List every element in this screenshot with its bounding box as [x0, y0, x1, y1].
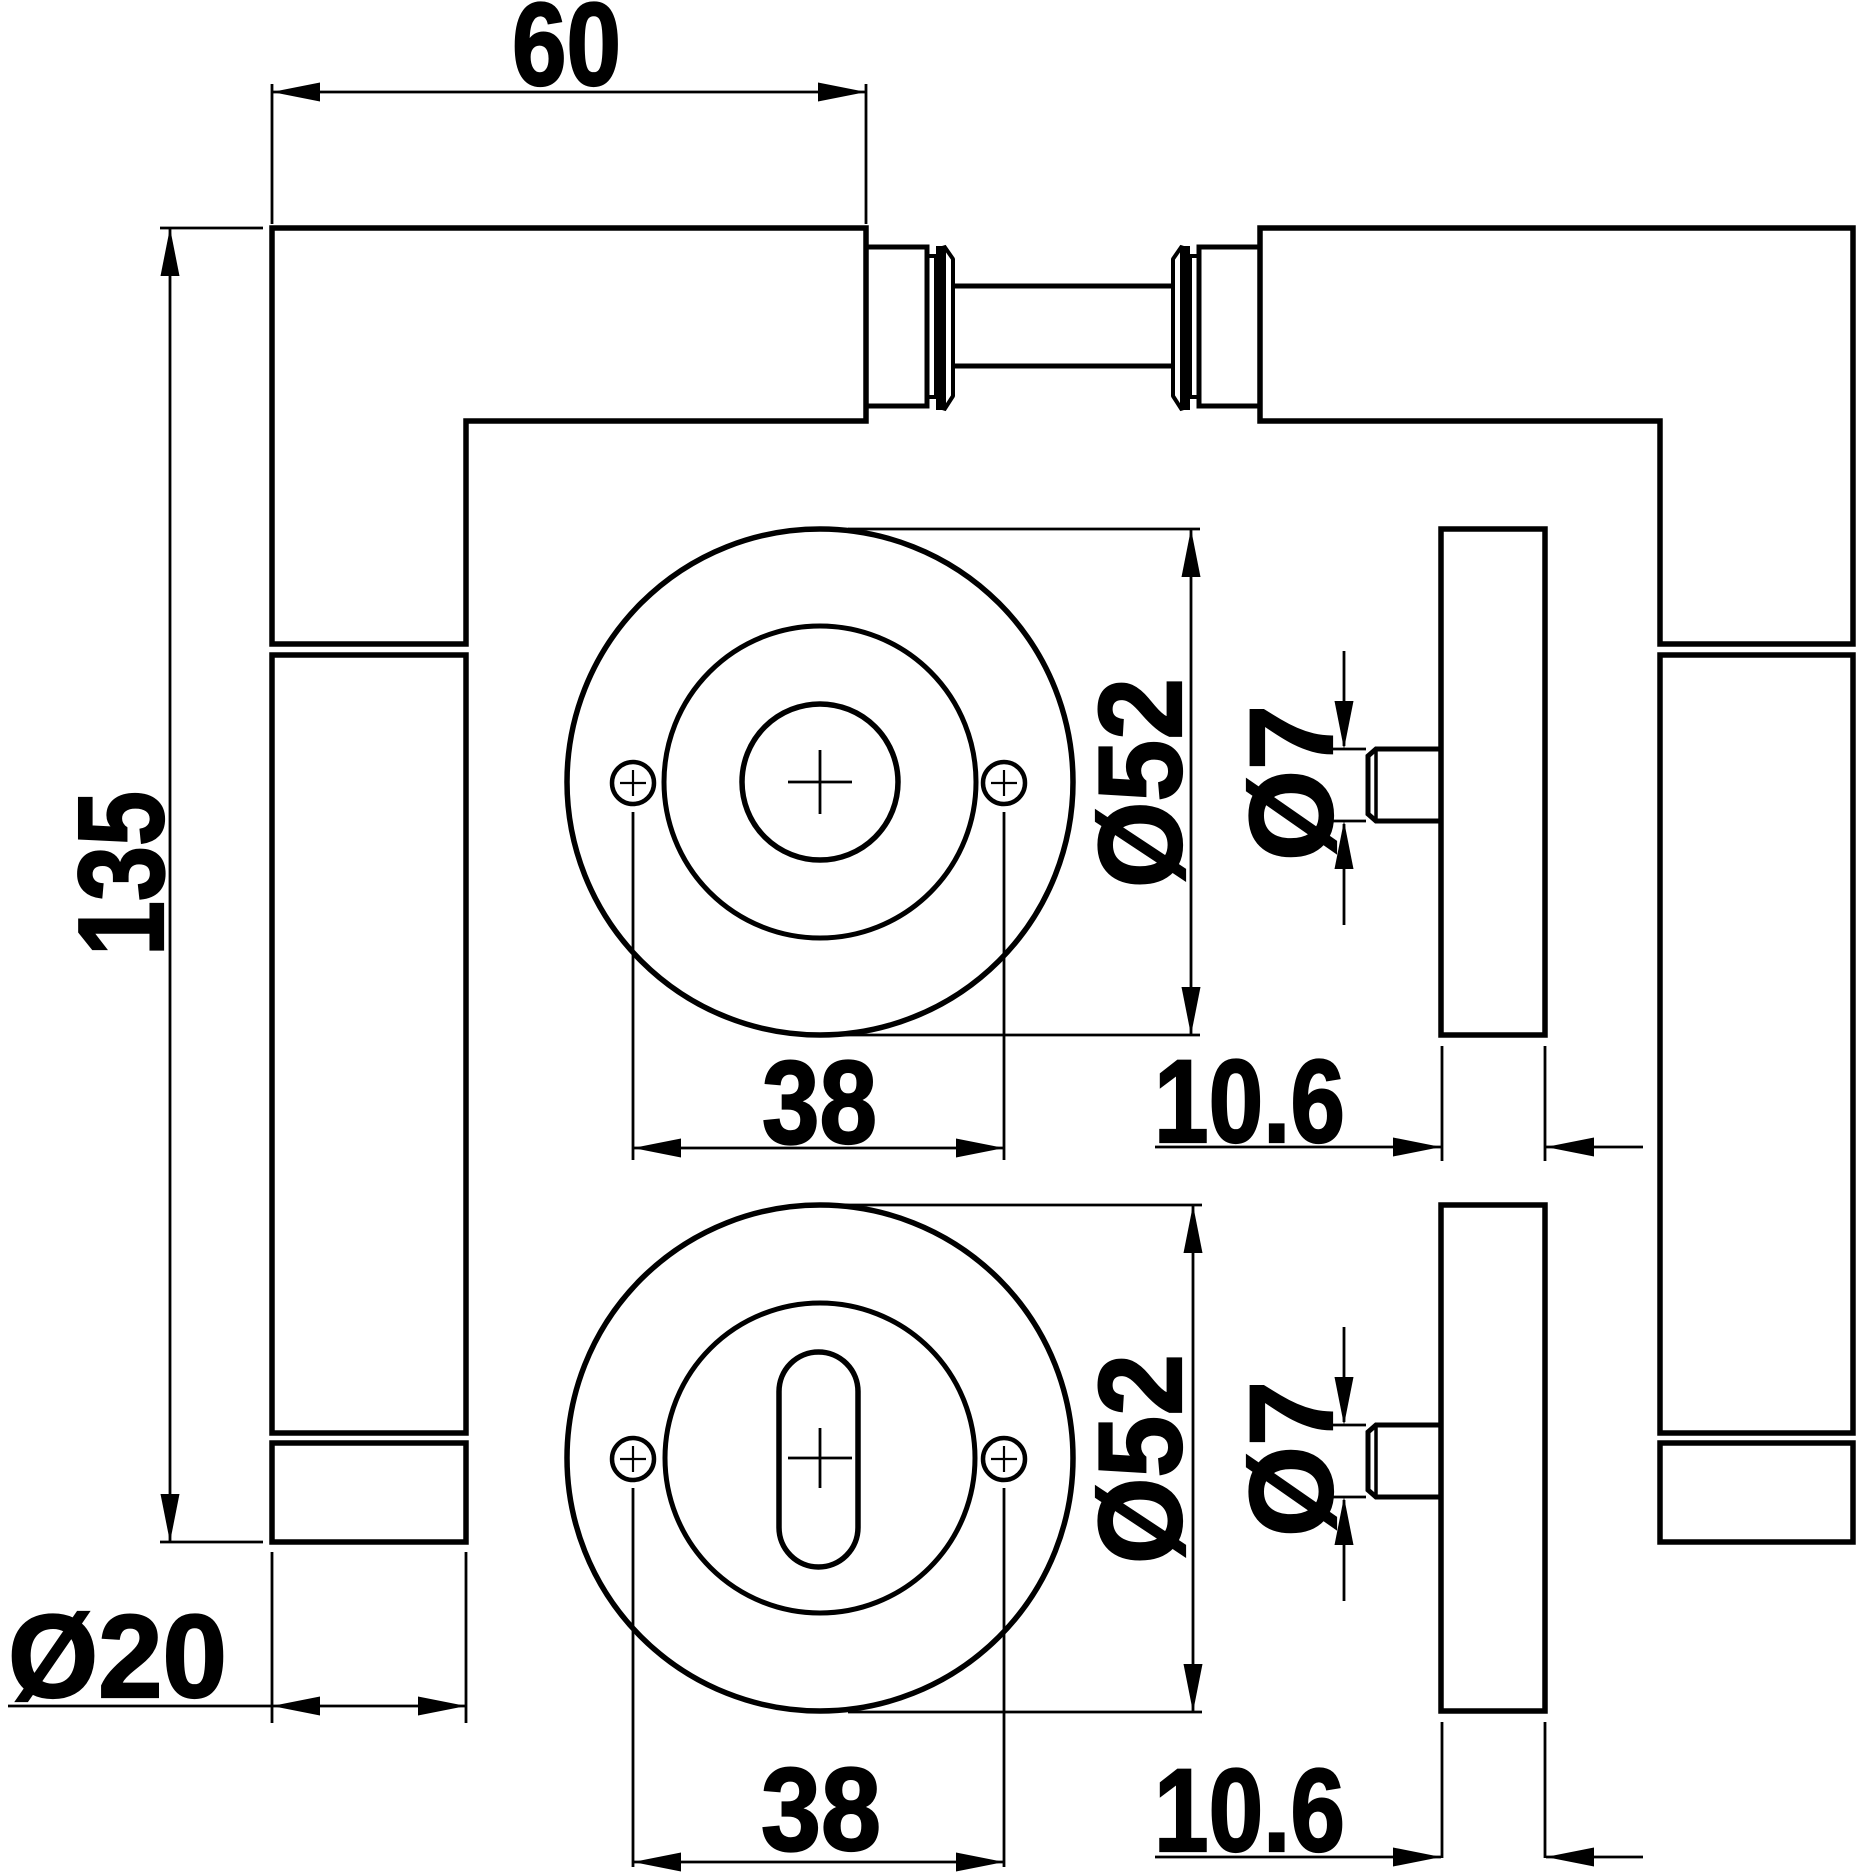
dimension 10.6 top line [1155, 1146, 1441, 1149]
right handle step ring [1190, 256, 1199, 397]
top rosette inner bore circle [742, 704, 898, 860]
svg-text:Ø52: Ø52 [1075, 1354, 1207, 1564]
right handle end cap [1660, 1443, 1853, 1542]
bottom rosette left screw [612, 1438, 654, 1480]
bottom rosette right screw [983, 1438, 1025, 1480]
dimension D7 bottom arrows [1343, 1327, 1346, 1422]
bottom rosette side view plate [1441, 1205, 1545, 1711]
dimension 60 extension lines [271, 84, 274, 224]
top rosette left screw [612, 762, 654, 804]
dimension D52 bottom extension lines [800, 1204, 1202, 1207]
bottom rosette keyhole slot [779, 1352, 858, 1567]
right handle retaining clip [1182, 246, 1190, 410]
dimension D7 bottom ticks [1330, 1424, 1366, 1427]
dimension D20 extension lines [271, 1552, 274, 1723]
bottom rosette outer circle [567, 1205, 1073, 1711]
top rosette right screw [983, 762, 1025, 804]
svg-text:Ø52: Ø52 [1075, 678, 1207, 888]
bottom rosette middle circle [665, 1303, 975, 1613]
top rosette center cross [788, 781, 852, 784]
dimension 38 bottom extension lines [632, 1488, 635, 1867]
dimension 60 line [272, 91, 866, 94]
dimension D20 line [8, 1705, 466, 1708]
svg-text:10.6: 10.6 [1154, 1036, 1345, 1168]
right handle grip tube [1660, 655, 1853, 1433]
dimension 38 bottom line [633, 1861, 1004, 1864]
svg-text:38: 38 [761, 1744, 881, 1872]
dimension D7 top arrows [1343, 651, 1346, 746]
dimension 38 top extension lines [632, 812, 635, 1160]
svg-text:10.6: 10.6 [1154, 1745, 1345, 1872]
bottom rosette side view stud [1368, 1425, 1441, 1497]
svg-text:Ø7: Ø7 [1226, 705, 1358, 861]
left handle step ring [927, 256, 936, 397]
left handle retaining clip [936, 246, 944, 410]
dimension 10.6 top extension lines [1441, 1046, 1444, 1161]
left handle neck [866, 247, 927, 406]
top rosette side view stud [1368, 749, 1441, 821]
dimension 135 extension lines [160, 227, 263, 230]
right handle neck [1199, 247, 1260, 406]
dimension D7 top ticks [1330, 748, 1366, 751]
top rosette outer circle [567, 529, 1073, 1035]
svg-text:38: 38 [762, 1037, 877, 1169]
right handle lever body [1260, 228, 1853, 644]
dimension D52 bottom line [1192, 1205, 1195, 1712]
left handle end cap [272, 1443, 466, 1542]
dimension 38 top line [633, 1147, 1004, 1150]
dimension D52 top line [1190, 529, 1193, 1035]
left handle lever body [272, 228, 866, 644]
dimension D52 top extension lines [848, 528, 1200, 531]
svg-text:Ø7: Ø7 [1226, 1381, 1358, 1537]
bottom rosette center cross [788, 1457, 852, 1460]
svg-text:Ø20: Ø20 [8, 1591, 227, 1723]
right handle chamfer collar [1173, 246, 1182, 410]
top rosette side view plate [1441, 529, 1545, 1035]
left handle grip tube [272, 655, 466, 1433]
dimension 10.6 bottom extension lines [1441, 1722, 1444, 1858]
dimension 135 line [169, 228, 172, 1542]
svg-text:60: 60 [512, 0, 621, 111]
left handle chamfer collar [944, 246, 953, 410]
spindle bar [953, 284, 1173, 289]
top rosette middle circle [664, 626, 976, 938]
dimension 10.6 bottom line [1155, 1856, 1441, 1859]
svg-text:135: 135 [53, 791, 189, 956]
